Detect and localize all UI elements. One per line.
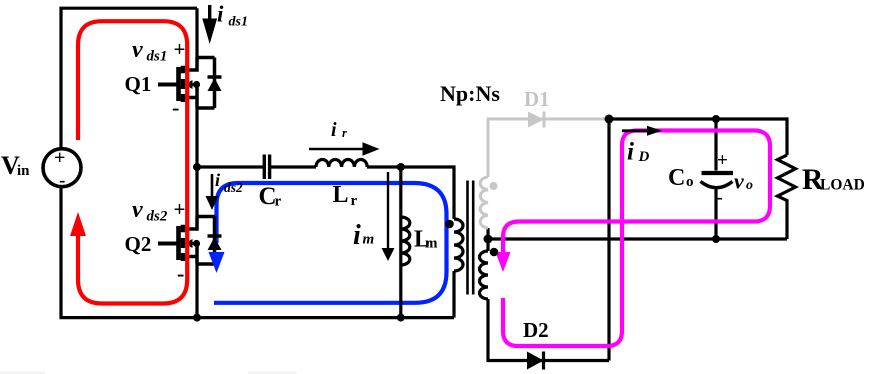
svg-text:D: D: [638, 149, 650, 165]
svg-text:-: -: [717, 187, 723, 208]
svg-text:Np:Ns: Np:Ns: [440, 81, 500, 106]
svg-text:i: i: [627, 139, 634, 166]
svg-text:in: in: [17, 163, 30, 179]
svg-text:+: +: [54, 147, 65, 169]
svg-text:+: +: [174, 37, 186, 61]
svg-text:v: v: [132, 37, 143, 63]
svg-text:o: o: [686, 174, 694, 190]
svg-text:v: v: [734, 169, 744, 194]
svg-text:D2: D2: [523, 318, 549, 342]
svg-text:i: i: [215, 170, 220, 190]
svg-text:-: -: [172, 95, 179, 120]
svg-text:Q2: Q2: [125, 232, 152, 256]
svg-text:Q1: Q1: [125, 72, 152, 96]
svg-text:i: i: [331, 119, 337, 141]
svg-text:r: r: [275, 194, 282, 210]
svg-text:ds2: ds2: [147, 209, 168, 225]
svg-text:o: o: [746, 178, 753, 193]
svg-text:L: L: [333, 182, 349, 208]
svg-text:ds1: ds1: [147, 49, 168, 65]
svg-text:m: m: [425, 236, 438, 252]
svg-text:C: C: [668, 165, 685, 191]
svg-text:m: m: [363, 232, 375, 248]
svg-text:i: i: [217, 2, 224, 27]
svg-text:ds1: ds1: [229, 15, 248, 30]
svg-text:D1: D1: [524, 87, 550, 111]
svg-text:LOAD: LOAD: [820, 177, 865, 194]
svg-text:-: -: [177, 261, 184, 286]
svg-text:+: +: [174, 197, 186, 221]
svg-text:i: i: [353, 220, 361, 251]
svg-text:r: r: [342, 126, 347, 140]
svg-text:+: +: [717, 150, 728, 171]
svg-text:r: r: [351, 193, 358, 209]
svg-text:ds2: ds2: [224, 180, 243, 195]
svg-text:-: -: [59, 170, 65, 191]
svg-text:v: v: [132, 197, 143, 223]
